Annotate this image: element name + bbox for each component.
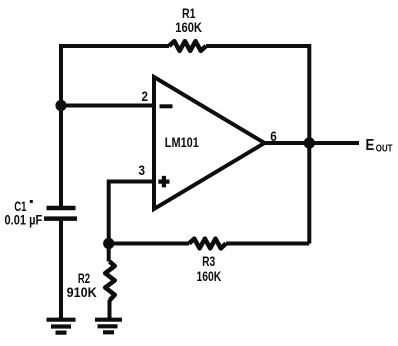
resistor R2 <box>105 262 115 301</box>
ground (below C1) <box>47 320 76 333</box>
op-amp U1 LM101 triangle <box>154 77 265 209</box>
svg-text:160K: 160K <box>197 268 222 284</box>
wire from R3 to right rail corner <box>226 242 309 246</box>
svg-text:R3: R3 <box>202 253 215 269</box>
svg-text:2: 2 <box>142 88 149 104</box>
wire from node A down to capacitor C1 <box>59 106 63 207</box>
node B: junction dot of R2/R3/pin3 <box>103 238 114 249</box>
wire from node B down to R2 <box>107 244 111 262</box>
wire pin 3 input and vertical down to node B <box>109 182 154 244</box>
non-inverting input plus symbol <box>158 176 169 188</box>
svg-text:910K: 910K <box>67 284 97 300</box>
svg-text:LM101: LM101 <box>165 134 199 150</box>
svg-text:3: 3 <box>139 162 146 178</box>
resistor R3 <box>189 239 226 249</box>
wire from C1 to ground <box>59 221 63 319</box>
wire from R2 to ground <box>108 300 112 319</box>
svg-text:OUT: OUT <box>376 143 393 154</box>
wire from R1 to top-right corner and down right rail <box>206 46 309 244</box>
node A: left rail junction dot <box>55 100 66 111</box>
wire pin 2 input from left node to op-amp <box>61 104 154 108</box>
node C: output junction dot <box>304 137 315 148</box>
wire top-left: left rail up and top run to R1 <box>61 46 169 107</box>
svg-text:6: 6 <box>270 128 277 144</box>
capacitor C1 plates <box>44 208 77 219</box>
svg-text:0.01 µF: 0.01 µF <box>5 212 43 228</box>
svg-text:E: E <box>366 137 375 154</box>
ground (below R2) <box>95 320 122 333</box>
wire from node B to R3 <box>109 242 189 246</box>
svg-text:160K: 160K <box>175 19 202 35</box>
resistor R1 <box>169 41 206 51</box>
wire output from op-amp to Eout <box>265 141 360 145</box>
inverting input minus symbol <box>160 104 173 108</box>
